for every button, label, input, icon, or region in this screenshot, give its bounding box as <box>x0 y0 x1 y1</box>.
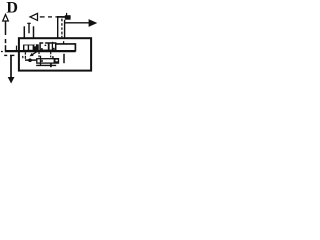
reservoir symbol on box top <box>24 23 33 38</box>
bottom rail of valves <box>5 50 76 52</box>
right feedback loop <box>53 41 76 51</box>
dashed pilot line to valve <box>40 16 58 18</box>
lower valve: dark end cap <box>54 58 59 63</box>
pilot line left-arrow (hollow head) <box>30 13 38 20</box>
drain line below small box <box>36 64 56 66</box>
lower valve: through line <box>40 56 42 66</box>
right valve (3 squares) <box>40 43 56 50</box>
stub above solenoid <box>66 13 68 16</box>
dashed pilot stub 1 <box>38 52 40 54</box>
dashed drop to lower dashes <box>4 54 7 56</box>
dashed pilot drop at left valve <box>24 52 26 54</box>
solenoid block <box>65 15 71 20</box>
lower valve: thick stub <box>52 56 54 59</box>
dashed pilot stub 2 <box>50 52 52 54</box>
relief valve (top right) <box>57 16 65 38</box>
proportional arrow through valve <box>32 52 37 55</box>
lower valve: outline box <box>37 59 59 63</box>
enclosure box <box>19 38 91 70</box>
hanging drain (right) <box>63 54 65 63</box>
svg-text:D: D <box>6 0 18 17</box>
stub right of pilot valve <box>16 46 18 51</box>
node line with dot (left) <box>25 59 37 61</box>
down arrow (filled head) <box>10 56 12 78</box>
output line with filled arrow <box>65 22 89 24</box>
pilot line up-arrow (hollow head) <box>3 15 9 51</box>
left valve (3 squares) <box>24 45 39 50</box>
